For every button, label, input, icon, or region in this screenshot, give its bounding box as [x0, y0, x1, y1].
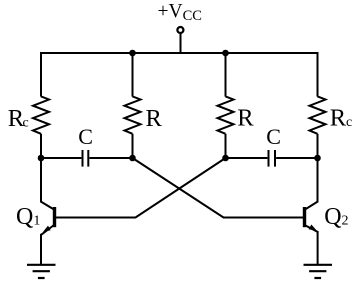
capacitor C left plates [82, 150, 84, 167]
svg-text:Q1: Q1 [16, 204, 40, 230]
wire right R branch top lead [225, 52, 227, 97]
wire Q2 emitter down [317, 231, 319, 265]
node junction dot left R/C [129, 155, 136, 162]
svg-text:R: R [237, 105, 254, 132]
svg-text:R: R [146, 105, 163, 132]
wire right R branch lower lead [225, 134, 227, 158]
svg-text:Rc: Rc [330, 105, 353, 132]
wire cross-couple right R to Q1 base [56, 158, 226, 218]
resistor R right [218, 96, 234, 133]
wire top rail [41, 52, 318, 54]
node junction dot rail left [129, 50, 136, 57]
svg-text:C: C [78, 124, 93, 149]
wire left cap left segment [41, 157, 81, 159]
transistor Q1 emitter lead [41, 225, 54, 235]
wire right Rc branch top lead [317, 52, 319, 97]
wire left cap right segment [89, 157, 132, 159]
wire right cap left segment [226, 157, 268, 159]
transistor Q2 emitter lead [305, 225, 318, 232]
wire Q1 collector riser [40, 158, 42, 202]
wire Q2 collector riser [317, 158, 319, 202]
svg-text:Rc: Rc [8, 105, 29, 132]
wire left Rc branch top lead [40, 52, 42, 97]
svg-text:+VCC: +VCC [158, 1, 202, 24]
svg-text:C: C [266, 124, 281, 149]
wire right cap right segment [276, 157, 317, 159]
node junction dot right R/C [222, 155, 229, 162]
node junction dot rail right [222, 50, 229, 57]
svg-text:Q2: Q2 [324, 204, 348, 230]
wire right Rc branch lower lead [317, 134, 319, 158]
transistor Q1 emitter arrow [43, 226, 51, 232]
capacitor C right plates [268, 150, 270, 167]
resistor Rc left [33, 96, 49, 133]
wire VCC lead [180, 34, 182, 54]
node junction dot left Rc/C [38, 155, 45, 162]
transistor Q2 emitter arrow [309, 225, 317, 231]
ground right [304, 264, 333, 266]
wire left Rc branch lower lead [40, 134, 42, 158]
resistor Rc right [310, 96, 326, 133]
node junction dot right Rc/C [314, 155, 321, 162]
transistor Q2 collector lead [305, 202, 318, 210]
wire left R branch lower lead [132, 134, 134, 158]
wire Q1 emitter down [40, 234, 42, 265]
transistor Q2 base bar [303, 207, 306, 227]
ground left [27, 264, 56, 266]
wire left R branch top lead [132, 52, 134, 97]
wire cross-couple left R to Q2 base [133, 158, 304, 218]
resistor R left [125, 96, 141, 133]
VCC terminal circle [177, 27, 183, 33]
transistor Q1 collector lead [41, 202, 54, 210]
transistor Q1 base bar [53, 207, 56, 227]
